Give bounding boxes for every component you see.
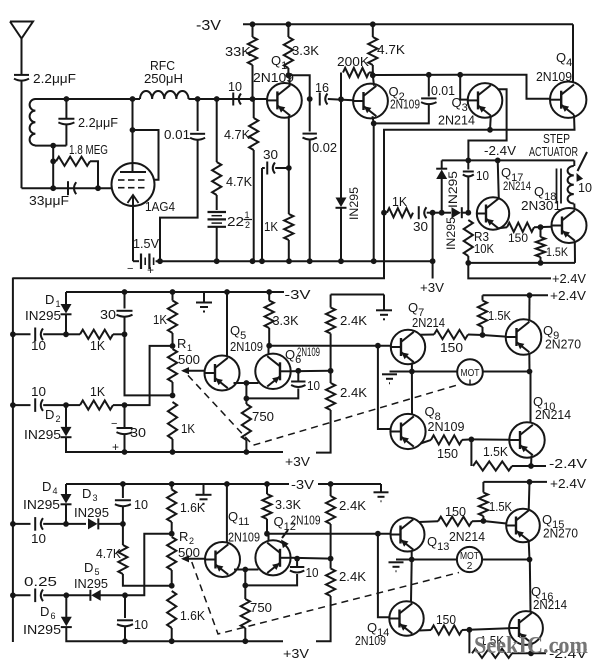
svg-text:SeekIC.com: SeekIC.com xyxy=(474,633,588,659)
wire Q3 collector to -2.4V stub xyxy=(468,89,506,160)
capacitor 10 (Q12 base-emitter) xyxy=(245,574,297,585)
arrow Q12 label xyxy=(282,530,288,538)
svg-text:IN295: IN295 xyxy=(347,187,361,220)
svg-text:16: 16 xyxy=(315,80,329,95)
resistor 750 xyxy=(242,404,251,440)
resistor 3.3K (Q6 collector) xyxy=(268,292,270,301)
svg-text:IN295: IN295 xyxy=(24,427,61,442)
wire Q1 emitter xyxy=(288,116,290,168)
node tank bottom junction xyxy=(50,143,56,149)
wire left input bus xyxy=(12,278,14,643)
wire Q16 collector xyxy=(529,560,532,612)
wire tank top rail xyxy=(35,98,140,100)
ground rail (2.4K top) xyxy=(331,294,384,296)
wire to Q2 base xyxy=(328,99,353,100)
wire Q1 collector xyxy=(289,75,291,85)
wire Q9 emitter xyxy=(528,353,530,372)
svg-text:IN295: IN295 xyxy=(25,308,61,323)
wire MOT to output node xyxy=(483,371,530,373)
svg-text:2.2μμF: 2.2μμF xyxy=(78,115,118,130)
resistor 4.7K (line3 to R2) xyxy=(122,524,124,545)
wire line2 jog up to R1 top xyxy=(125,346,173,405)
svg-text:150: 150 xyxy=(445,504,466,519)
svg-text:D: D xyxy=(40,604,49,619)
wire line1 jog down to R1 bottom xyxy=(125,334,173,395)
svg-text:1: 1 xyxy=(245,210,250,220)
diode 1N295 (shunt up) xyxy=(441,179,443,213)
transistor Q9 2N270 xyxy=(506,319,542,355)
transistor Q18 2N301 xyxy=(552,208,587,243)
svg-text:2: 2 xyxy=(245,220,250,230)
diode D3 1N295 xyxy=(66,523,86,525)
diode D6 1N295 xyxy=(65,595,67,617)
wire Q9 base xyxy=(483,335,506,337)
svg-text:+2.4V: +2.4V xyxy=(550,288,586,303)
wire emitters join xyxy=(234,382,259,384)
svg-text:MOT: MOT xyxy=(461,368,480,379)
svg-text:0.01: 0.01 xyxy=(164,127,190,142)
capacitor 10 (Q6 base-emitter) xyxy=(246,389,298,399)
wire Q7 collector + resistor 150 xyxy=(420,334,435,336)
ground (Q13 emitter) xyxy=(396,559,412,561)
transistor Q13 2N214 xyxy=(391,518,425,552)
resistor 1.5K (Q15 base) xyxy=(482,482,484,493)
transistor Q4 2N109 xyxy=(550,82,586,118)
capacitor 0.01 (tube plate) xyxy=(197,99,199,131)
tube heater xyxy=(128,195,139,203)
antenna xyxy=(10,22,33,39)
transistor Q1 2N109 xyxy=(267,83,302,118)
transistor Q5 2N109 xyxy=(205,356,240,391)
wire cathode down xyxy=(132,206,134,261)
diode 1N295 (series) xyxy=(442,212,451,214)
resistor 1K (limiter) xyxy=(387,208,413,217)
resistor 1.8 MEG xyxy=(56,157,90,166)
actuator core bars xyxy=(556,169,558,204)
svg-text:4.7K: 4.7K xyxy=(226,174,252,189)
capacitor 30 (coupling to actuator) xyxy=(418,206,420,219)
svg-text:1K: 1K xyxy=(264,219,278,234)
capacitor 16 xyxy=(319,93,321,106)
capacitor 0.02 xyxy=(309,99,311,132)
transistor Q8 2N109 xyxy=(390,414,425,449)
transistor Q16 2N214 xyxy=(509,611,543,645)
resistor 3.3K (Q1 collector) xyxy=(287,24,289,37)
wire antenna down xyxy=(21,81,23,189)
resistor R3 10K xyxy=(464,220,473,256)
svg-text:2N109: 2N109 xyxy=(297,345,320,359)
resistor 1.5K (Q18 base) xyxy=(540,227,542,237)
ground rail segment 2 (bottom) xyxy=(318,483,381,485)
resistor 2.4K (ch2 lower) xyxy=(330,559,332,569)
svg-text:30: 30 xyxy=(130,425,146,440)
svg-text:1AG4: 1AG4 xyxy=(145,199,175,214)
node battery rail junctions xyxy=(214,258,220,264)
svg-text:D: D xyxy=(42,479,51,494)
svg-text:4.7K: 4.7K xyxy=(224,127,250,142)
capacitor 30 (line1 to rail) xyxy=(124,292,126,309)
transistor Q7 2N214 xyxy=(391,330,425,364)
wire grid-leak column xyxy=(52,146,54,189)
svg-text:30: 30 xyxy=(100,307,116,322)
svg-text:1.5K: 1.5K xyxy=(483,444,508,459)
svg-text:IN295: IN295 xyxy=(446,171,460,208)
wire Q14 base column xyxy=(378,534,390,618)
wire Q4 collector from -3V rail xyxy=(572,24,574,81)
arrow to coil xyxy=(578,152,588,171)
svg-text:+: + xyxy=(112,440,119,454)
transistor Q17 2N214 xyxy=(477,197,509,229)
svg-text:2N214: 2N214 xyxy=(533,597,567,612)
resistor 1K (line 2) xyxy=(66,404,80,406)
wire Q12 collector xyxy=(268,534,270,541)
svg-text:2N109: 2N109 xyxy=(355,633,386,648)
svg-text:2N109: 2N109 xyxy=(428,419,465,434)
svg-text:10: 10 xyxy=(476,168,489,183)
wire Q11 collector xyxy=(226,484,228,543)
svg-text:2N214: 2N214 xyxy=(438,113,475,128)
motor MOT xyxy=(412,371,457,373)
svg-text:200K: 200K xyxy=(337,54,369,69)
svg-text:150: 150 xyxy=(436,612,456,627)
svg-text:+3V: +3V xyxy=(283,646,309,661)
svg-text:150: 150 xyxy=(508,231,528,245)
wire Q16 base xyxy=(469,628,509,630)
svg-text:2: 2 xyxy=(56,414,61,424)
svg-text:33μμF: 33μμF xyxy=(29,193,69,208)
svg-text:IN295: IN295 xyxy=(444,217,458,250)
resistor 2.4K (lower) xyxy=(326,383,335,410)
wire Q17 collector xyxy=(498,160,499,199)
capacitor 2.2uuF (antenna) xyxy=(14,74,29,76)
wire Q12 coll to Q13 base line xyxy=(267,533,391,535)
ground (middle rail) xyxy=(203,292,205,303)
resistor 33K xyxy=(250,21,256,27)
svg-text:IN295: IN295 xyxy=(23,622,61,637)
dashed mechanical link (ch2) xyxy=(192,562,459,634)
resistor 1.5K (Q9 base) xyxy=(482,295,484,300)
svg-text:4.7K: 4.7K xyxy=(377,42,405,57)
wire Q8 base column xyxy=(378,346,391,429)
tube grid dashes xyxy=(118,179,125,181)
svg-text:10: 10 xyxy=(134,617,148,632)
wire Q2 collector rail xyxy=(373,74,460,76)
svg-text:−: − xyxy=(127,263,133,275)
svg-text:10: 10 xyxy=(134,497,148,512)
diode 1N295 (AGC clamp) xyxy=(340,99,342,198)
resistor 3.3K (ch2) xyxy=(266,484,268,494)
svg-text:-3V: -3V xyxy=(196,17,221,34)
wire Q3 base from collector rail xyxy=(460,75,468,100)
svg-text:D: D xyxy=(45,292,54,307)
wire emitter node xyxy=(245,383,247,398)
wire MOT2 to output node xyxy=(482,559,529,561)
svg-text:2N109: 2N109 xyxy=(536,69,572,84)
svg-text:2.2μμF: 2.2μμF xyxy=(33,71,76,86)
svg-text:+: + xyxy=(147,263,154,277)
svg-text:500: 500 xyxy=(178,352,200,367)
svg-text:+2.4V: +2.4V xyxy=(552,271,586,286)
wire Q10 collector xyxy=(530,372,532,423)
svg-text:2N109: 2N109 xyxy=(228,530,260,545)
wire Q12 base line xyxy=(291,557,331,560)
diode D2 1N295 xyxy=(65,405,67,427)
svg-text:2N214: 2N214 xyxy=(535,407,571,422)
ground (bottom rail left) xyxy=(203,484,205,495)
svg-text:2.4K: 2.4K xyxy=(340,313,367,328)
svg-text:ACTUATOR: ACTUATOR xyxy=(529,144,578,159)
wire actuator -2.4V rail xyxy=(442,159,575,161)
capacitor 0.01 (Q2-Q3) xyxy=(428,75,430,97)
net -3V rail (middle) xyxy=(66,291,284,293)
svg-text:2N214: 2N214 xyxy=(412,315,445,330)
wire Q7 emitter xyxy=(411,363,413,372)
svg-text:IN295: IN295 xyxy=(74,576,108,591)
svg-text:33K: 33K xyxy=(225,44,251,59)
wiper arrow R2 xyxy=(183,558,205,560)
capacitor 10 (input line 1) xyxy=(13,333,31,335)
svg-text:10: 10 xyxy=(307,378,320,393)
svg-text:2.4K: 2.4K xyxy=(339,569,366,584)
ground (Q7 emitter) xyxy=(396,371,412,373)
svg-text:1.5K: 1.5K xyxy=(546,245,568,259)
wire Q2 collector xyxy=(373,75,374,86)
transistor Q10 2N214 xyxy=(509,422,544,457)
svg-text:2N270: 2N270 xyxy=(543,526,578,541)
svg-text:1.6K: 1.6K xyxy=(180,608,205,623)
wire Q9 collector xyxy=(528,295,530,321)
wire Q3 emitter xyxy=(489,116,492,130)
svg-text:1K: 1K xyxy=(90,384,105,399)
wire grid line xyxy=(22,187,113,189)
svg-text:D: D xyxy=(82,486,91,501)
capacitor 33uuF xyxy=(67,181,69,195)
svg-text:−: − xyxy=(111,418,117,430)
wire Q15 emitter xyxy=(528,541,531,560)
net -3V rail (bottom) xyxy=(66,483,289,485)
svg-text:150: 150 xyxy=(440,340,463,355)
wire Q13 emitter xyxy=(411,551,413,560)
svg-text:22: 22 xyxy=(227,214,244,229)
wire Q4 base jog xyxy=(460,75,550,99)
wire Q6 collector xyxy=(268,346,270,355)
wire Q10 base xyxy=(471,438,509,440)
svg-text:1K: 1K xyxy=(392,194,407,209)
capacitor 10 (actuator) xyxy=(467,160,469,169)
step actuator coil xyxy=(573,160,575,166)
svg-text:3.3K: 3.3K xyxy=(273,313,299,328)
resistor 4.7K (lower, screen) xyxy=(216,99,218,162)
wire Q8 emitter + resistor 150 xyxy=(421,440,432,444)
motor MOT 2 xyxy=(412,559,457,561)
wire top rail to Q1 xyxy=(189,98,267,100)
svg-text:10: 10 xyxy=(228,79,242,94)
svg-text:750: 750 xyxy=(252,409,274,424)
svg-text:3: 3 xyxy=(93,493,98,503)
tube plate bar xyxy=(120,171,146,173)
svg-text:D: D xyxy=(45,407,54,422)
svg-text:+2.4V: +2.4V xyxy=(550,476,586,491)
transistor Q14 2N109 xyxy=(389,601,423,635)
svg-text:10: 10 xyxy=(31,338,46,353)
wire Q15 base xyxy=(483,521,506,524)
svg-text:R: R xyxy=(179,529,188,544)
svg-text:2N109: 2N109 xyxy=(230,339,263,354)
capacitor 10 (line3 to rail) xyxy=(122,484,124,498)
svg-text:1K: 1K xyxy=(153,312,167,327)
wire collector jog to 16 cap node xyxy=(288,75,309,99)
wire Q18 emitter xyxy=(574,241,576,263)
inductor RFC 250uH xyxy=(140,91,189,99)
potentiometer R1 500 with 1K ends xyxy=(172,292,174,301)
svg-text:+3V: +3V xyxy=(420,280,444,295)
svg-text:10K: 10K xyxy=(474,241,494,256)
potentiometer R2 500 with 1.6K ends xyxy=(171,484,173,490)
resistor 1.5K (Q10) xyxy=(470,439,472,466)
svg-text:250μH: 250μH xyxy=(144,71,183,86)
wire Q2 emitter xyxy=(373,116,374,261)
resistor 200K xyxy=(340,73,342,100)
svg-text:2N109: 2N109 xyxy=(390,97,420,112)
svg-text:10: 10 xyxy=(306,565,319,580)
net +2.4V rail (middle) xyxy=(483,294,549,296)
diode D5 1N295 xyxy=(66,594,89,596)
wire tank bottom xyxy=(35,145,67,147)
svg-text:1.5V: 1.5V xyxy=(133,236,159,251)
svg-text:0.02: 0.02 xyxy=(312,140,337,155)
wire Q6 collector to Q7 base line xyxy=(269,345,391,347)
capacitor 30 (polarized, line2) xyxy=(124,405,126,427)
wire Q6 base line xyxy=(291,370,331,373)
wire Q14 emitter + resistor 150 (ch2) xyxy=(419,629,431,632)
wire line4 jog up to R2 top xyxy=(125,534,172,596)
wire Q17 emitter + resistor 150 xyxy=(499,226,507,229)
svg-text:30: 30 xyxy=(263,147,278,162)
svg-text:-3V: -3V xyxy=(291,477,314,492)
dashed mechanical link (ch1) xyxy=(188,375,459,445)
resistor 750 (ch2) xyxy=(244,585,246,599)
svg-text:6: 6 xyxy=(51,611,56,621)
svg-text:1K: 1K xyxy=(181,421,195,436)
battery 1.5V xyxy=(133,260,139,262)
wire Q5 collector xyxy=(226,292,228,357)
resistor 4.7K (Q2 collector) xyxy=(372,24,374,37)
svg-text:2.4K: 2.4K xyxy=(340,385,367,400)
svg-text:IN295: IN295 xyxy=(23,497,60,512)
svg-text:4: 4 xyxy=(53,486,58,496)
svg-text:750: 750 xyxy=(250,600,272,615)
svg-text:2N214: 2N214 xyxy=(503,179,531,193)
node +3V stub junction xyxy=(430,210,436,216)
svg-text:3.3K: 3.3K xyxy=(292,43,319,58)
svg-text:2N270: 2N270 xyxy=(545,337,581,352)
svg-text:10: 10 xyxy=(578,180,592,195)
wire Q16 emitter xyxy=(530,643,533,653)
svg-text:-3V: -3V xyxy=(285,287,311,302)
tube 1AG4 xyxy=(112,163,155,206)
capacitor 10 (input line 3) xyxy=(13,523,31,525)
wire Q14 collector xyxy=(410,560,413,602)
capacitor 10 (input line 2) xyxy=(13,404,31,406)
wire Q15 collector xyxy=(528,482,531,511)
svg-text:R: R xyxy=(177,336,186,351)
svg-text:2N109: 2N109 xyxy=(291,513,321,528)
net +2.4V rail (bottom) xyxy=(483,481,547,483)
resistor 2.4K (upper) xyxy=(330,295,332,308)
svg-text:1.8 MEG: 1.8 MEG xyxy=(69,142,108,157)
svg-text:1K: 1K xyxy=(90,338,105,353)
capacitor 10 (coupling to Q1) xyxy=(232,93,234,106)
wiper arrow R1 xyxy=(183,370,205,372)
svg-text:D: D xyxy=(84,560,93,575)
transistor Q2 2N109 xyxy=(353,84,388,119)
wire Q8 collector xyxy=(411,372,413,415)
capacitor 30 (Q1 emitter) xyxy=(262,167,265,169)
capacitor 10 (line4 lower) xyxy=(124,595,126,618)
diode D4 1N295 xyxy=(65,484,67,495)
svg-text:2N214: 2N214 xyxy=(449,529,485,544)
svg-text:10: 10 xyxy=(31,531,46,546)
svg-text:30: 30 xyxy=(413,219,428,234)
resistor 2.4K (ch2 upper) xyxy=(330,484,332,496)
svg-text:-2.4V: -2.4V xyxy=(549,456,587,471)
resistor 1K (line 1) xyxy=(66,333,80,335)
wire Q10 emitter xyxy=(530,456,533,467)
wire screen-grid jog xyxy=(133,130,159,180)
wire Q13 collector + resistor 150 xyxy=(419,520,438,523)
svg-text:4.7K: 4.7K xyxy=(96,546,121,561)
capacitor 2.2uuF (tank) xyxy=(65,125,67,146)
battery 22.5V xyxy=(208,211,227,213)
svg-text:0.25: 0.25 xyxy=(24,574,57,589)
svg-text:-2.4V: -2.4V xyxy=(484,143,516,158)
resistor 1.5K (Q16) xyxy=(468,630,470,654)
svg-text:3.3K: 3.3K xyxy=(275,497,301,512)
diode D1 1N295 xyxy=(65,292,67,304)
svg-text:2N301: 2N301 xyxy=(521,198,561,213)
transistor Q12 2N109 (mirrored) xyxy=(255,540,290,575)
svg-text:2: 2 xyxy=(467,561,473,572)
svg-text:2.4K: 2.4K xyxy=(339,498,366,513)
net -3V rail (top) xyxy=(243,23,573,25)
svg-text:150: 150 xyxy=(437,446,458,461)
wire actuator bottom rail xyxy=(468,262,575,264)
wire Q4 emitter to audio line xyxy=(13,115,575,278)
svg-text:IN295: IN295 xyxy=(74,505,109,520)
svg-text:1.5K: 1.5K xyxy=(488,308,511,323)
resistor 4.7K (upper right of tube) xyxy=(249,118,258,150)
resistor 1K (Q1 emitter) xyxy=(288,168,290,214)
wire emitters join (ch2) xyxy=(234,569,259,571)
capacitor 0.25 (input line 4) xyxy=(13,594,31,596)
svg-text:1.6K: 1.6K xyxy=(180,500,205,515)
wire +2.4V stub (actuator) xyxy=(468,263,551,279)
transistor Q11 2N109 xyxy=(205,542,240,577)
transistor Q3 2N214 xyxy=(468,83,503,118)
inductor tank coil xyxy=(30,99,36,145)
svg-text:1.5K: 1.5K xyxy=(489,499,512,514)
transistor Q6 2N109 (mirrored) xyxy=(255,354,290,389)
svg-text:10: 10 xyxy=(31,384,46,399)
transistor Q15 2N270 xyxy=(506,509,540,543)
svg-text:+3V: +3V xyxy=(285,454,310,469)
